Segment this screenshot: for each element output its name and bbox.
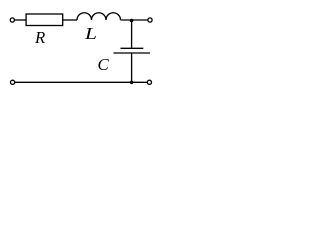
wire capacitor down to bottom bbox=[131, 53, 133, 82]
wire resistor to inductor bbox=[63, 19, 77, 21]
node bottom junction bbox=[130, 81, 134, 85]
terminal top-left bbox=[10, 18, 14, 22]
wire junction down to capacitor bbox=[131, 20, 133, 48]
label L bbox=[85, 24, 97, 44]
label R bbox=[35, 28, 45, 48]
terminal bottom-right bbox=[147, 80, 151, 84]
capacitor C bottom plate bbox=[114, 52, 151, 54]
resistor R bbox=[26, 14, 63, 26]
wire inductor to right terminal bbox=[121, 19, 148, 21]
wire bottom bbox=[15, 81, 147, 83]
wire top-left to resistor bbox=[15, 19, 26, 21]
capacitor C top plate bbox=[121, 47, 144, 49]
label C bbox=[98, 55, 109, 75]
inductor L bbox=[77, 13, 121, 20]
terminal bottom-left bbox=[11, 80, 15, 84]
terminal top-right bbox=[148, 18, 152, 22]
node top junction bbox=[130, 19, 134, 23]
